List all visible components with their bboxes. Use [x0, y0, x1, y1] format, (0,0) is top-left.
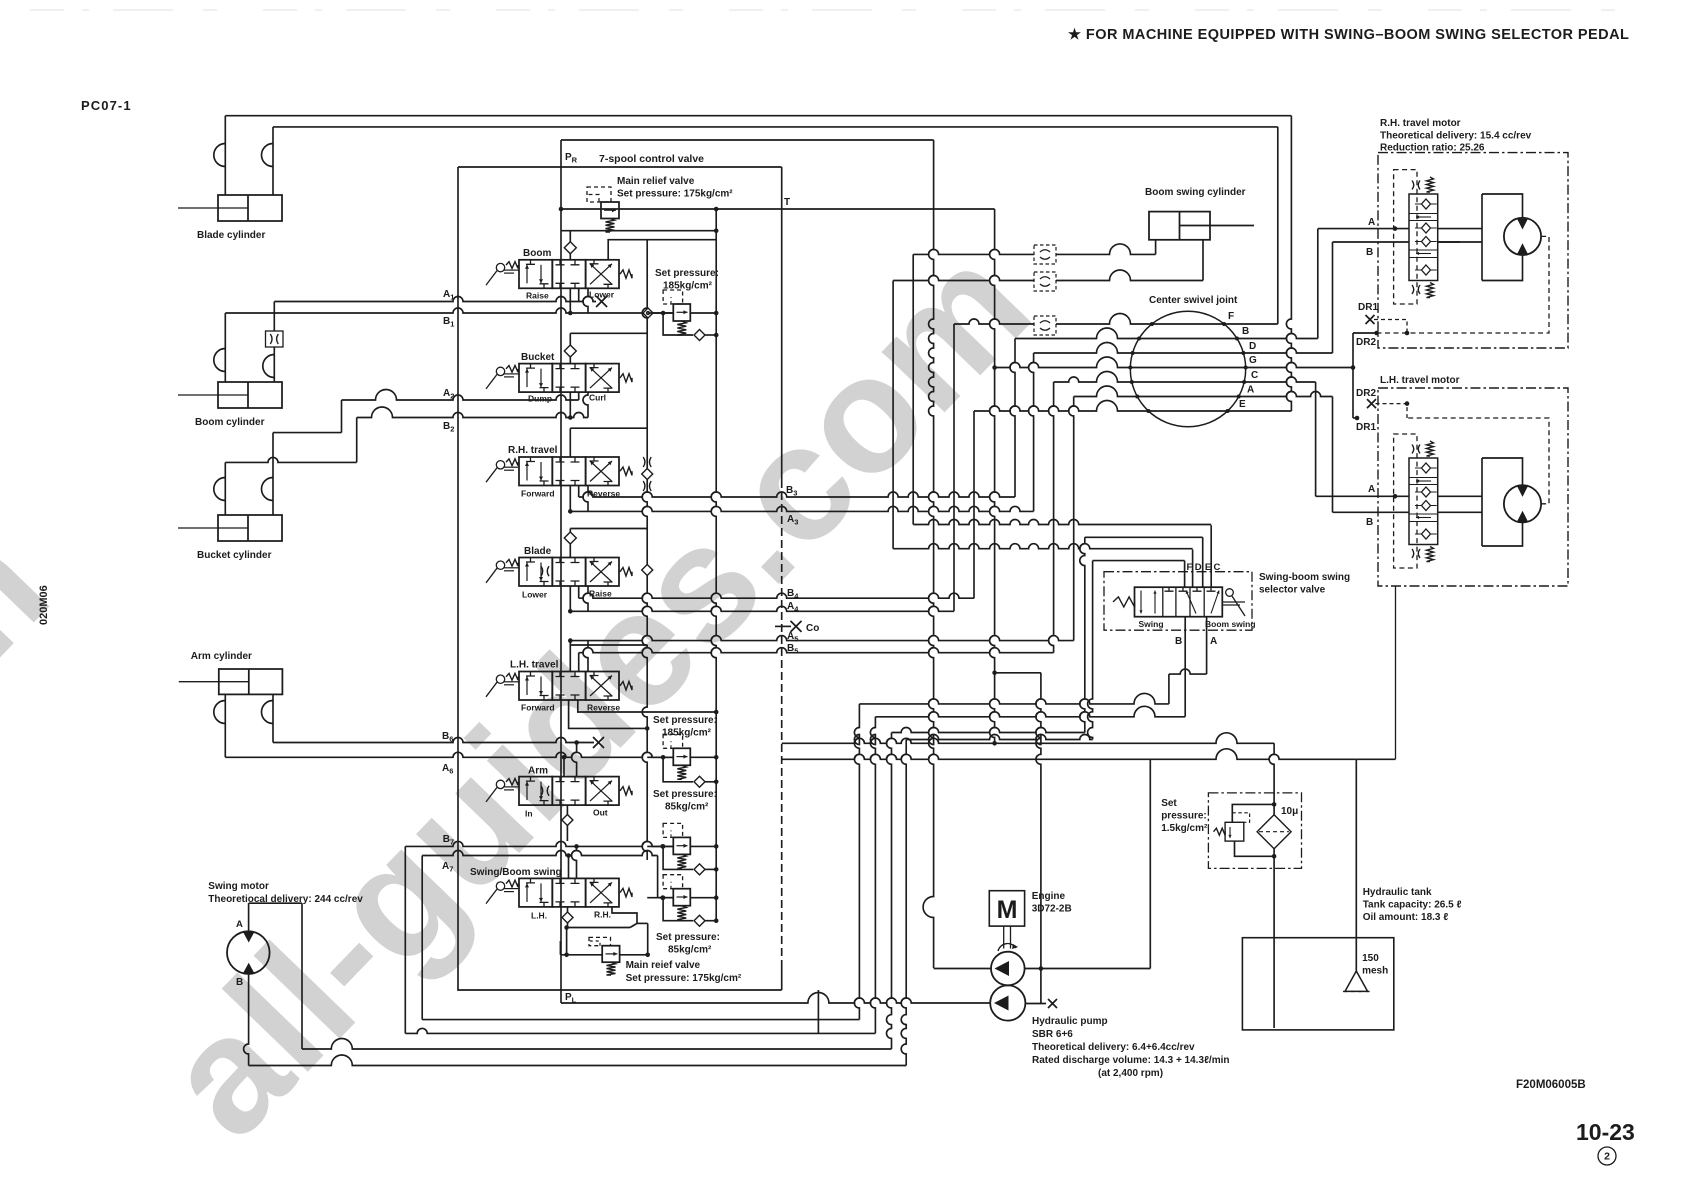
coupling 1: [1034, 245, 1056, 264]
svg-text:150: 150: [1362, 953, 1379, 964]
swing motor top line: [248, 903, 250, 931]
boom swing cyl wires: [1155, 240, 1157, 255]
PR box right edge: [923, 140, 934, 968]
svg-text:Theoretical delivery: 6.4+6.4c: Theoretical delivery: 6.4+6.4cc/rev: [1032, 1042, 1195, 1053]
relief bus B: [711, 209, 716, 921]
svg-text:Blade: Blade: [524, 546, 552, 557]
lh motor control valve: [1409, 458, 1438, 545]
arm valve: [519, 777, 552, 806]
line A5: [570, 636, 1073, 641]
selector top stubs: [1184, 561, 1186, 588]
vert D down: [1029, 353, 1034, 511]
svg-text:pressure:: pressure:: [1161, 811, 1207, 822]
arm valve stubs: [563, 757, 565, 776]
line B6: [273, 738, 577, 743]
svg-text:F: F: [1187, 562, 1193, 573]
A7 link to relief4: [657, 856, 659, 898]
selector valve body: [1135, 587, 1223, 617]
lh travel bottom loop: [578, 700, 716, 712]
boom valve stubs: [578, 288, 580, 302]
svg-text:Reverse: Reverse: [587, 489, 620, 499]
vert swingA up: [887, 733, 892, 1050]
line A7: [422, 851, 657, 856]
line to selector F: [1093, 560, 1185, 562]
svg-text:★ FOR MACHINE EQUIPPED WITH S: ★ FOR MACHINE EQUIPPED WITH SWING–BOOM S…: [1068, 27, 1629, 43]
vert filter: [1269, 743, 1274, 937]
wire arm cyl right B6: [272, 694, 274, 742]
plug Co: [775, 625, 791, 627]
line C swivel: [1054, 372, 1316, 382]
svg-text:B: B: [1242, 326, 1249, 337]
rh motor circuit loop: [1438, 228, 1482, 230]
line A6 to relief2: [225, 752, 673, 757]
selector pedal: [1226, 589, 1234, 597]
svg-text:PC07-1: PC07-1: [81, 98, 132, 113]
svg-text:Curl: Curl: [589, 393, 606, 403]
inline check on B1: [643, 308, 653, 318]
lh travel stubs: [578, 653, 580, 672]
svg-text:F: F: [1228, 311, 1234, 322]
svg-text:Main relief valve: Main relief valve: [617, 176, 695, 187]
lh motor drain down: [1395, 586, 1397, 759]
svg-text:Engine: Engine: [1032, 891, 1066, 902]
line boom swing left: [913, 244, 1155, 255]
svg-text:C: C: [1251, 370, 1258, 381]
filter loop: [1232, 804, 1274, 822]
bus line 2 (blade A4-F): [273, 126, 1278, 128]
vert B7 up: [870, 717, 875, 1034]
strainer 150 mesh: [1345, 971, 1368, 991]
svg-text:Boom: Boom: [523, 248, 551, 259]
plug X on B6: [593, 737, 604, 748]
wire blade cyl right to bus2: [272, 127, 274, 195]
swing out line: [612, 907, 637, 924]
rh motor outer box: [1378, 153, 1568, 348]
svg-text:10μ: 10μ: [1281, 806, 1298, 817]
line A4: [570, 606, 954, 611]
selector bottom stub A: [1206, 617, 1208, 674]
svg-text:Bucket: Bucket: [521, 352, 555, 363]
line A swivel: [1074, 386, 1333, 397]
vert swingB up: [901, 740, 906, 1066]
boom valve: [519, 260, 552, 289]
svg-text:mesh: mesh: [1362, 966, 1388, 977]
svg-text:R.H. travel: R.H. travel: [508, 445, 558, 456]
B7 runout: [404, 846, 406, 1033]
svg-text:A: A: [1247, 385, 1254, 396]
svg-text:E: E: [1239, 399, 1246, 410]
box bottom drop: [817, 990, 819, 1033]
svg-text:Boom swing cylinder: Boom swing cylinder: [1145, 187, 1246, 198]
svg-text:Reverse: Reverse: [587, 703, 620, 713]
svg-text:DR1: DR1: [1358, 302, 1378, 313]
rh travel stubs: [578, 485, 580, 497]
svg-text:B: B: [1175, 636, 1182, 647]
svg-text:R.H. travel motor: R.H. travel motor: [1380, 118, 1461, 129]
svg-text:A: A: [1368, 484, 1375, 495]
filter box: [1208, 793, 1301, 869]
lh travel valve: [519, 672, 552, 701]
svg-text:Swing/Boom swing: Swing/Boom swing: [470, 867, 562, 878]
watermark all-guides.com: [0, 211, 1064, 1184]
vert swivelB to RH A: [1317, 229, 1319, 339]
wire bucket A2: [342, 390, 579, 401]
vert F down: [953, 324, 955, 611]
wire arm cyl left A6: [224, 694, 226, 757]
pump supply up: [1036, 673, 1041, 1004]
svg-text:Set pressure:: Set pressure:: [655, 268, 719, 279]
arm cylinder: [219, 669, 283, 694]
coupling 3: [1034, 316, 1056, 335]
swing valve stubs: [568, 856, 570, 879]
vert B down: [1010, 339, 1015, 498]
svg-text:020M06: 020M06: [38, 585, 50, 625]
boom cylinder: [218, 382, 282, 408]
line E swivel: [974, 401, 1291, 412]
pump plug X: [1048, 999, 1057, 1008]
7-spool valve outer box: [458, 166, 782, 168]
coupling on boom wire: [266, 331, 284, 347]
svg-text:Reduction ratio: 25.26: Reduction ratio: 25.26: [1380, 143, 1485, 154]
svg-text:Dump: Dump: [528, 394, 552, 404]
lh motor inner dashed box: [1394, 434, 1417, 568]
svg-text:Raise: Raise: [589, 589, 612, 599]
T line: [561, 208, 995, 210]
svg-text:Hydraulic pump: Hydraulic pump: [1032, 1016, 1108, 1027]
rh motor port B: [1333, 241, 1410, 243]
svg-text:R.H.: R.H.: [594, 910, 611, 920]
port relief 4 (swing 85kg): [673, 889, 690, 906]
arm below check: [566, 806, 568, 842]
center swivel joint circle: [1130, 311, 1245, 426]
svg-text:10-23: 10-23: [1576, 1119, 1635, 1145]
vert E upper: [973, 410, 975, 412]
svg-text:B: B: [1366, 517, 1373, 528]
svg-text:Blade cylinder: Blade cylinder: [197, 230, 265, 241]
pump suction riser: [1149, 759, 1151, 968]
circled 2: [1598, 1147, 1616, 1165]
swing line B to selector: [249, 1055, 907, 1066]
boom swing cylinder: [1149, 212, 1210, 240]
svg-text:D: D: [1195, 562, 1202, 573]
svg-text:DR2: DR2: [1356, 388, 1376, 399]
pump suction left: [934, 968, 991, 970]
vert selector F: [1088, 561, 1093, 740]
wire boom cyl left B1: [224, 313, 226, 382]
main relief valve bottom: [602, 946, 619, 963]
svg-text:Swing motor: Swing motor: [208, 881, 269, 892]
line B1: [225, 308, 673, 313]
line A7 to selector A: [859, 693, 1169, 703]
pump merge: [1025, 968, 1151, 970]
svg-text:A: A: [236, 919, 243, 930]
line F: [954, 314, 1278, 325]
vert boom swing right: [892, 281, 894, 549]
vert swivelA to LH B: [1332, 397, 1334, 513]
vert C down: [1049, 382, 1054, 653]
svg-text:Set pressure:: Set pressure:: [653, 715, 717, 726]
svg-text:2: 2: [1604, 1151, 1610, 1163]
top scan speckle: [30, 9, 1650, 11]
svg-text:Boom cylinder: Boom cylinder: [195, 417, 265, 428]
lh motor port A: [1316, 495, 1409, 497]
engine shaft: [1003, 926, 1005, 948]
vert A7 up: [854, 704, 859, 1020]
line B7: [405, 841, 673, 846]
svg-text:G: G: [1249, 355, 1257, 366]
vert boom swing left: [912, 254, 914, 524]
svg-text:Set pressure: 175kg/cm²: Set pressure: 175kg/cm²: [626, 973, 742, 984]
bus check blade: [642, 565, 653, 576]
coupling 2: [1034, 272, 1056, 291]
svg-text:Out: Out: [593, 808, 608, 818]
bucket valve: [519, 364, 552, 393]
svg-text:T: T: [784, 197, 790, 208]
suction line: [782, 749, 1357, 760]
rh travel valve: [519, 457, 552, 486]
svg-text:C: C: [1214, 562, 1221, 573]
bucket valve stubs: [578, 392, 580, 401]
PR box top: [561, 139, 934, 141]
tank inner pipe: [1273, 938, 1275, 1028]
rh motor: [1504, 218, 1541, 255]
line B swivel: [1015, 328, 1318, 339]
selector bottom stub B: [1184, 617, 1186, 717]
svg-text:E: E: [1205, 562, 1211, 573]
svg-text:In: In: [525, 809, 533, 819]
rh motor drain: [1378, 236, 1549, 333]
swing bottom loop: [567, 927, 630, 929]
line boom swing right: [893, 270, 1203, 281]
rh motor control valve: [1409, 194, 1438, 281]
lh motor drain: [1407, 418, 1549, 504]
lh motor circuit loop: [1438, 495, 1482, 497]
selector valve dashdot box: [1104, 572, 1252, 631]
vert E down: [973, 411, 975, 598]
selector spring: [1113, 597, 1135, 607]
svg-text:Set: Set: [1161, 798, 1177, 809]
line motorA to selector E: [892, 728, 1085, 733]
swing motor bottom line: [244, 974, 249, 1066]
svg-text:A: A: [1368, 217, 1375, 228]
svg-text:85kg/cm²: 85kg/cm²: [668, 945, 712, 956]
line A3: [570, 506, 1033, 511]
svg-text:L.H. travel: L.H. travel: [510, 660, 559, 671]
svg-text:A: A: [1210, 636, 1217, 647]
svg-text:Swing: Swing: [1139, 619, 1164, 629]
line B3: [579, 492, 1015, 497]
svg-text:7-spool control valve: 7-spool control valve: [599, 153, 704, 165]
vert F to bus2: [1277, 127, 1279, 324]
svg-text:selector valve: selector valve: [1259, 585, 1326, 596]
wire blade cyl left to bus1: [224, 116, 226, 195]
svg-text:Forward: Forward: [521, 703, 555, 713]
svg-text:Tank capacity: 26.5 ℓ: Tank capacity: 26.5 ℓ: [1363, 900, 1462, 911]
swing below check: [567, 907, 569, 928]
main relief valve top: [601, 202, 619, 219]
lh motor port B: [1333, 511, 1410, 513]
svg-text:Co: Co: [806, 623, 819, 634]
port relief 2 (arm 185kg): [673, 748, 690, 765]
wire boom cyl right A1: [273, 302, 275, 332]
line to selector D: [893, 544, 1193, 549]
blade cylinder: [218, 195, 282, 221]
svg-text:185kg/cm²: 185kg/cm²: [663, 281, 713, 292]
port relief 3 (swing 85kg): [673, 837, 690, 854]
svg-text:Set pressure:: Set pressure:: [653, 789, 717, 800]
filter element 10u: [1257, 815, 1291, 849]
PL line: [561, 993, 991, 1004]
filter bypass relief: [1225, 822, 1244, 841]
svg-text:Arm cylinder: Arm cylinder: [191, 651, 252, 662]
vert E to bus1: [1286, 116, 1291, 411]
svg-text:85kg/cm²: 85kg/cm²: [665, 802, 709, 813]
vert swivelC to LH A: [1315, 382, 1317, 496]
svg-text:Raise: Raise: [526, 291, 549, 301]
PR box left edge / center bus: [560, 140, 562, 1003]
line D swivel: [1034, 343, 1333, 354]
lh motor: [1504, 485, 1541, 522]
svg-text:Rated discharge volume: 14.3 +: Rated discharge volume: 14.3 + 14.3ℓ/min: [1032, 1055, 1229, 1066]
bucket cylinder: [218, 515, 282, 541]
line motorB to selector F: [906, 735, 1092, 740]
svg-text:1.5kg/cm²: 1.5kg/cm²: [1161, 823, 1208, 834]
svg-text:Set pressure: 175kg/cm²: Set pressure: 175kg/cm²: [617, 189, 733, 200]
T return to filter: [782, 733, 1274, 744]
svg-text:L.H.: L.H.: [531, 911, 547, 921]
relief bus A: [642, 240, 647, 860]
svg-text:Oil amount: 18.3 ℓ: Oil amount: 18.3 ℓ: [1363, 912, 1449, 923]
line G swivel: [995, 357, 1353, 368]
svg-text:Theoretical delivery: 15.4 cc: Theoretical delivery: 15.4 cc/rev: [1380, 131, 1532, 142]
vert selector E: [1080, 537, 1085, 732]
svg-text:Set pressure:: Set pressure:: [656, 932, 720, 943]
svg-text:Forward: Forward: [521, 489, 555, 499]
vert A down: [1069, 397, 1074, 641]
line B4: [579, 593, 974, 598]
P rail top: [561, 230, 716, 232]
line B5: [579, 648, 1054, 653]
svg-text:M: M: [997, 896, 1018, 924]
lh motor outer box: [1378, 388, 1568, 586]
pump bottom: [990, 985, 1025, 1020]
svg-text:L.H. travel motor: L.H. travel motor: [1380, 375, 1460, 386]
svg-text:Center swivel joint: Center swivel joint: [1149, 295, 1238, 306]
svg-text:Main reief valve: Main reief valve: [626, 960, 701, 971]
port relief 1 (boom 185kg): [673, 304, 690, 321]
svg-text:SBR 6+6: SBR 6+6: [1032, 1029, 1073, 1040]
swing valve: [519, 878, 552, 907]
svg-text:DR2: DR2: [1356, 337, 1376, 348]
engine box: [989, 891, 1024, 926]
svg-text:Arm: Arm: [528, 766, 548, 777]
svg-text:DR1: DR1: [1356, 422, 1376, 433]
plug X on A1: [596, 296, 607, 307]
svg-text:Swing-boom swing: Swing-boom swing: [1259, 572, 1350, 583]
line A1: [274, 297, 596, 302]
svg-text:Hydraulic tank: Hydraulic tank: [1363, 887, 1432, 898]
suction right ext: [1356, 758, 1395, 760]
svg-text:3D72-2B: 3D72-2B: [1032, 904, 1072, 915]
blade valve stubs: [578, 586, 580, 598]
svg-text:185kg/cm²: 185kg/cm²: [662, 728, 712, 739]
A7 runout: [421, 856, 423, 1020]
svg-text:(at 2,400 rpm): (at 2,400 rpm): [1098, 1068, 1163, 1079]
svg-text:B: B: [1366, 247, 1373, 258]
svg-text:Lower: Lower: [589, 290, 615, 300]
svg-text:Bucket cylinder: Bucket cylinder: [197, 550, 272, 561]
vert G to drains: [1352, 333, 1354, 418]
bus throttle+check rh: [643, 457, 645, 467]
vert G down: [990, 209, 995, 743]
line to selector E: [1085, 536, 1203, 538]
svg-text:F20M06005B: F20M06005B: [1516, 1079, 1586, 1091]
wire bucket B2: [357, 407, 588, 418]
line to selector C: [913, 520, 1211, 525]
line B7 to selector B: [875, 706, 1185, 716]
hydraulic tank: [1242, 938, 1393, 1030]
svg-text:D: D: [1249, 341, 1256, 352]
svg-text:Lower: Lower: [522, 590, 548, 600]
svg-text:Boom swing: Boom swing: [1205, 619, 1256, 629]
svg-text:B: B: [236, 977, 243, 988]
rh motor port A: [1318, 228, 1409, 230]
vert to strainer: [1355, 759, 1357, 973]
pump top: [991, 952, 1025, 986]
bus line 1 (blade B4-E): [225, 115, 1291, 117]
main relief bottom lines: [560, 954, 602, 956]
vert swivelD to RH B: [1332, 242, 1334, 353]
blade valve: [519, 558, 552, 587]
swing line A to selector: [302, 1039, 892, 1050]
rh motor inner dashed box: [1394, 170, 1417, 304]
swing motor: [227, 931, 270, 974]
